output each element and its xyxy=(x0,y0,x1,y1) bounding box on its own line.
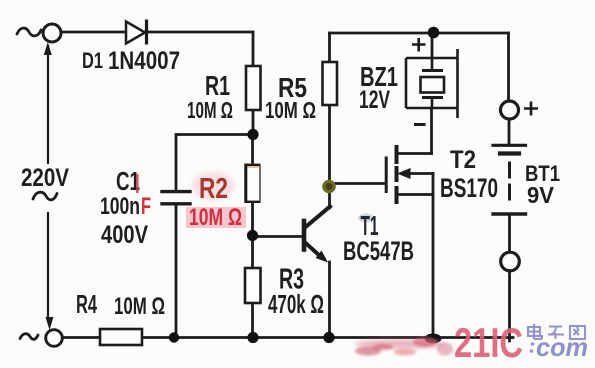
svg-text:470k Ω: 470k Ω xyxy=(268,289,324,319)
svg-text:10M Ω: 10M Ω xyxy=(114,293,165,320)
svg-text:R2: R2 xyxy=(199,173,228,205)
svg-text:100n: 100n xyxy=(100,193,140,220)
svg-text:21IC: 21IC xyxy=(454,319,523,366)
svg-text:T2: T2 xyxy=(450,146,476,174)
svg-text:12V: 12V xyxy=(359,86,390,114)
svg-text:1N4007: 1N4007 xyxy=(108,47,180,75)
svg-text:400V: 400V xyxy=(101,221,148,249)
svg-text:10M Ω: 10M Ω xyxy=(187,97,233,123)
svg-text:9V: 9V xyxy=(527,182,555,208)
svg-text:D1: D1 xyxy=(82,48,103,73)
svg-text:BS170: BS170 xyxy=(440,173,498,203)
svg-text:10M Ω: 10M Ω xyxy=(265,97,316,123)
svg-text:F: F xyxy=(141,193,151,220)
svg-text:10M Ω: 10M Ω xyxy=(189,204,242,231)
svg-text:com: com xyxy=(536,332,588,362)
svg-text:220V: 220V xyxy=(21,164,69,192)
svg-text:R4: R4 xyxy=(76,289,97,319)
svg-text:BC547B: BC547B xyxy=(343,236,414,266)
